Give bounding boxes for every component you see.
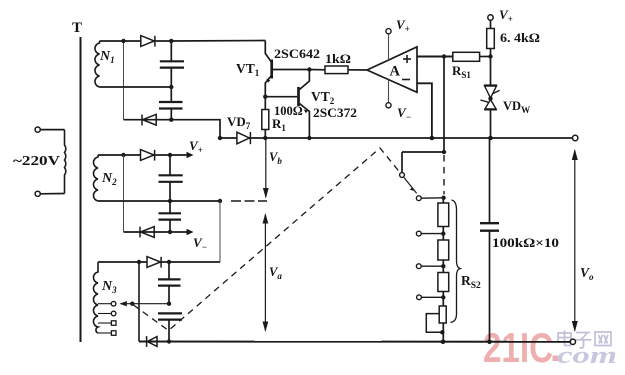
wire — [421, 265, 443, 267]
node — [430, 136, 435, 141]
svg-text:21IC: 21IC — [483, 324, 553, 371]
wire — [421, 197, 443, 199]
node — [169, 85, 173, 89]
svg-text:1kΩ: 1kΩ — [325, 52, 351, 66]
resistor RS2-a — [438, 203, 449, 227]
winding N1 — [95, 41, 100, 87]
tap circle RS2-4 — [417, 295, 422, 300]
diode VD3 — [141, 150, 155, 161]
wire N2 top — [98, 154, 189, 156]
wire N3 hot vertical — [138, 262, 140, 342]
svg-text:~220V: ~220V — [13, 154, 60, 169]
node — [130, 302, 134, 306]
diode VD6 — [147, 336, 157, 347]
node — [307, 67, 311, 71]
wire op-amp feedback — [417, 83, 432, 138]
node — [487, 340, 492, 345]
diode VD2 — [142, 114, 156, 125]
op-amp V+ supply — [386, 29, 391, 60]
resistor RS2-d preset — [439, 306, 446, 323]
switch S1 wiper arrow — [120, 301, 127, 306]
divider chain column — [442, 198, 444, 342]
node — [442, 54, 446, 58]
node — [307, 136, 311, 140]
primary terminal lower — [35, 191, 40, 196]
resistor R1 — [262, 97, 269, 138]
node — [168, 199, 172, 203]
primary winding 220V — [65, 130, 66, 194]
node — [137, 260, 141, 264]
node — [168, 153, 172, 157]
wire op-amp output — [417, 56, 453, 58]
wire N2 mid — [98, 200, 220, 202]
tap wires N3 — [98, 304, 111, 333]
winding N2 — [93, 155, 98, 201]
watermark CJK dianziwang — [558, 331, 611, 348]
node — [168, 230, 172, 234]
wire — [421, 296, 443, 298]
svg-text:2SC642: 2SC642 — [274, 47, 320, 61]
ganged switch link dashed — [134, 148, 401, 331]
resistor 6.4k — [487, 20, 495, 56]
switch S1 wiper wire — [121, 303, 170, 305]
main output rail — [220, 137, 572, 139]
op-amp V- supply — [386, 80, 391, 108]
svg-text:6. 4kΩ: 6. 4kΩ — [500, 31, 540, 45]
diode VD1 — [141, 36, 155, 47]
node — [121, 39, 125, 43]
tap circle RS2-3 — [416, 264, 421, 269]
node — [441, 295, 445, 299]
node — [440, 330, 444, 334]
switch S2 wiper arm — [404, 178, 417, 194]
diode VD7 — [237, 132, 251, 144]
switch S2 wiper contact — [400, 173, 405, 178]
ground level tick dashed — [231, 200, 267, 202]
svg-text:A: A — [390, 64, 401, 80]
Va arrow — [263, 213, 269, 332]
tap contact 3 — [111, 321, 116, 326]
arrow V+ head — [187, 152, 194, 159]
capacitor 100k x10 — [480, 138, 499, 342]
node — [121, 153, 125, 157]
winding N3 — [93, 262, 98, 333]
node — [488, 136, 493, 141]
tap contact 4 — [111, 331, 116, 336]
wire wiper feed — [402, 152, 444, 173]
node — [441, 196, 445, 200]
wire N1 bottom — [124, 120, 221, 138]
switch S2 wiper arrow — [410, 187, 415, 191]
resistor RS1 — [453, 52, 491, 61]
wire N2 bottom — [124, 231, 189, 233]
transformer T core — [80, 37, 82, 342]
mechanical link dashed — [443, 155, 445, 195]
transistor VT2 — [265, 70, 309, 139]
op-amp A — [367, 47, 417, 93]
V+ terminal top right — [488, 15, 493, 20]
node — [218, 199, 222, 203]
node — [441, 231, 445, 235]
svg-text:100kΩ×10: 100kΩ×10 — [492, 235, 559, 250]
brace RS2 — [451, 200, 461, 323]
output terminal top right — [573, 135, 578, 140]
wire N2 feed vertical — [123, 155, 125, 232]
capacitor C6 — [158, 313, 182, 341]
Vo arrow line — [572, 149, 578, 332]
node — [218, 136, 222, 140]
node — [442, 150, 446, 154]
zener VDW — [480, 57, 499, 139]
op-amp plus — [403, 55, 411, 63]
node — [263, 95, 267, 99]
wire N3 to N2 link — [219, 201, 221, 262]
node — [169, 118, 173, 122]
diode VD5 — [147, 257, 161, 268]
tap circle RS2-1 — [416, 196, 421, 201]
op-amp minus — [402, 79, 410, 81]
wire — [40, 193, 64, 195]
diode VD4 — [140, 227, 154, 238]
wire N1 feed vertical — [123, 41, 125, 120]
wire — [421, 233, 443, 235]
tap contact 1 — [111, 301, 116, 306]
tap contact 2 — [111, 311, 116, 316]
node — [167, 302, 171, 306]
wire — [40, 129, 64, 131]
wire N1 mid — [100, 86, 172, 88]
watermark dot — [553, 356, 559, 362]
resistor 1k — [309, 66, 367, 74]
node — [169, 39, 173, 43]
arrow V- head — [187, 229, 194, 236]
primary terminal upper — [35, 127, 40, 132]
node — [441, 264, 445, 268]
bottom rail — [139, 341, 570, 343]
node — [488, 54, 492, 58]
wire op-amp output to wiper — [443, 57, 445, 153]
output terminal bottom right — [570, 339, 575, 344]
node — [167, 339, 171, 343]
node — [167, 260, 171, 264]
wire N3 top — [98, 261, 220, 263]
preset bypass wire — [426, 314, 441, 333]
node — [263, 136, 267, 140]
svg-text:com: com — [557, 343, 617, 369]
capacitor C2 — [159, 87, 183, 120]
transistor VT1 — [265, 41, 309, 97]
resistor RS2-c — [438, 273, 449, 292]
capacitor C1 — [160, 41, 184, 87]
resistor RS2-b — [438, 240, 449, 260]
capacitor C4 — [159, 201, 182, 232]
capacitor C5 — [158, 262, 181, 304]
svg-text:2SC372: 2SC372 — [313, 106, 357, 120]
svg-text:T: T — [72, 20, 82, 36]
wire N1 top rail — [100, 40, 266, 43]
Vb arrow — [263, 140, 269, 199]
node — [441, 340, 446, 345]
capacitor C3 — [159, 155, 183, 201]
tap circle RS2-2 — [416, 231, 421, 236]
